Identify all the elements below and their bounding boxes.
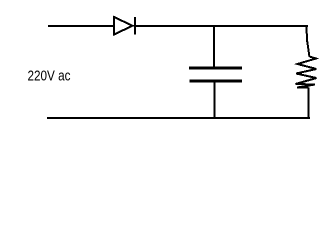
svg-text:220V ac: 220V ac — [28, 69, 71, 85]
node junction capacitor top — [213, 27, 215, 67]
diode D1 anode triangle — [114, 17, 133, 35]
wire top left segment — [48, 25, 114, 27]
diode D1 cathode bar — [134, 17, 136, 35]
wire top middle segment — [136, 25, 308, 27]
wire right vertical top lead — [307, 26, 310, 57]
capacitor C1 bottom plate — [190, 80, 243, 83]
wire resistor bottom lead — [308, 88, 310, 119]
wire capacitor bottom lead — [214, 82, 216, 118]
resistor R1 zigzag — [296, 57, 317, 88]
wire bottom — [47, 117, 310, 119]
capacitor C1 top plate — [189, 67, 242, 70]
